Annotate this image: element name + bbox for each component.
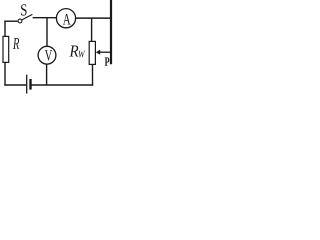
wire bottom left (to battery) [4,84,26,86]
rheostat RW body [89,41,95,64]
wire top middle (blade to ammeter) [33,17,57,19]
label S [21,4,27,15]
wire bottom right (battery to rheostat) [31,84,93,86]
node junction voltmeter tap [46,18,48,47]
switch S pivot circle [18,19,22,23]
wire voltmeter bottom lead [46,64,48,85]
label A [63,14,71,25]
resistor R body [3,36,9,62]
voltmeter V circle [38,46,56,64]
wiper P arrow [96,50,111,55]
ammeter A circle [56,9,75,28]
wire top-left horizontal to switch [4,20,17,22]
wire left vertical lower [4,62,6,86]
battery short plate [29,79,31,90]
battery long plate [26,75,28,94]
label R [13,38,19,49]
label P [105,57,110,65]
wire rheostat top lead [91,18,93,42]
wire rheostat bottom lead [92,64,94,85]
label V [45,50,52,61]
switch S blade [22,14,33,20]
label RW [69,46,85,58]
wire top right (ammeter to right side) [76,17,111,19]
wire right vertical (clipped at image top) [110,0,112,64]
wire left vertical upper [4,21,6,37]
